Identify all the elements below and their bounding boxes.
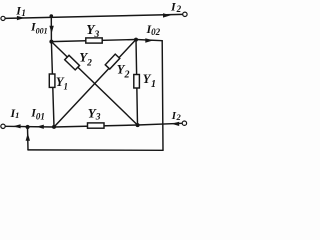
terminal T4	[182, 121, 186, 125]
wire left edge A-C	[51, 42, 54, 127]
wire bottom outer rail	[28, 149, 163, 151]
node B	[134, 38, 138, 42]
resistor Y2 right box (on diagonal B-C)	[105, 54, 120, 69]
wire J1 drop to node A	[50, 16, 52, 42]
wire B to corner E	[136, 40, 162, 41]
wire E vertical down	[161, 41, 164, 151]
wire bottom-left T3 to C	[5, 125, 54, 128]
node J1	[50, 14, 54, 18]
arrow I2 top (right)	[163, 13, 171, 17]
arrow I2 bottom (left)	[171, 122, 179, 126]
arrow I01 bottom (left)	[36, 125, 44, 129]
arrow I02 (right)	[145, 38, 153, 42]
terminal T1	[1, 16, 5, 20]
wire diagonal A-D	[51, 42, 137, 125]
arrow I001 (down)	[49, 26, 53, 34]
wire right edge B-D	[136, 40, 138, 126]
resistor Y2 left box (on diagonal A-D)	[65, 55, 80, 70]
wire J2 drop	[27, 127, 30, 150]
node A	[49, 40, 53, 44]
arrow I1 top (right)	[17, 16, 25, 20]
resistor Y1 left box	[49, 74, 55, 87]
svg-text:I2: I2	[171, 110, 182, 122]
node J2	[26, 125, 30, 129]
wire bottom edge C-D	[54, 125, 138, 127]
node C	[52, 125, 56, 129]
terminal T3	[1, 124, 5, 128]
wire D to T4	[138, 123, 183, 125]
terminal T2	[183, 12, 187, 16]
resistor Y1 right box	[134, 75, 140, 89]
arrow J2 vertical (up)	[26, 133, 30, 141]
wire diagonal B-C	[54, 40, 136, 128]
arrow I1 bottom (left)	[13, 124, 21, 128]
resistor Y3 bottom box	[88, 123, 105, 128]
resistor Y3 top box	[86, 38, 102, 43]
node D	[136, 123, 140, 127]
wire top edge A-B	[51, 40, 136, 42]
wire top rail	[5, 14, 182, 18]
